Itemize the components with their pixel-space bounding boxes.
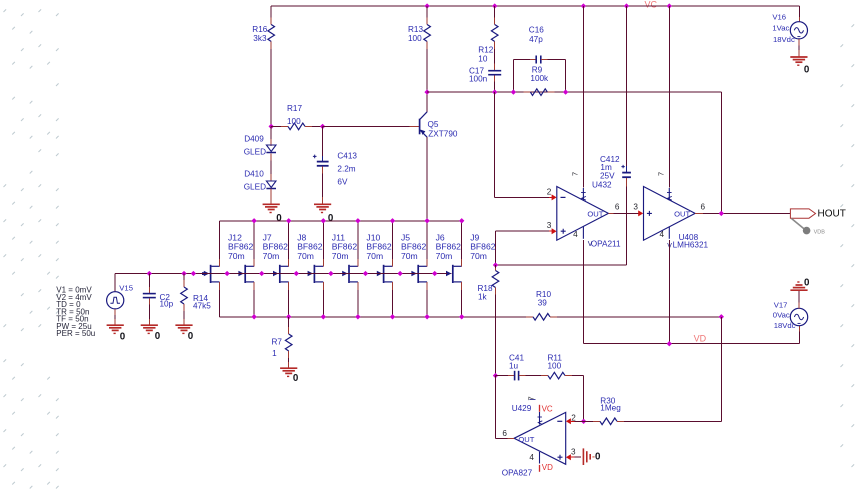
wire U432 V- to VD rail <box>582 227 584 239</box>
svg-text:1k: 1k <box>478 293 488 302</box>
transistor J7 BF862 <box>244 265 246 283</box>
voltage source V16 <box>798 17 800 22</box>
svg-text:U432: U432 <box>592 181 612 190</box>
svg-text:1Vac: 1Vac <box>772 24 789 33</box>
pin 3 input wire U432 <box>495 231 497 265</box>
node drain bus junction <box>459 218 464 223</box>
svg-text:2.2m: 2.2m <box>337 165 355 174</box>
resistor R13 <box>426 6 428 18</box>
transistor J5 BF862 <box>383 265 385 283</box>
node source bus junction <box>251 314 256 319</box>
wire J10 source <box>357 290 359 317</box>
capacitor C17 <box>494 64 496 71</box>
node source bus junction <box>321 314 326 319</box>
ground 0 at V16 <box>790 56 807 58</box>
node VC junction at U408 V+ <box>667 3 672 8</box>
node output junction at HOUT <box>719 211 724 216</box>
wire J8 drain <box>288 221 290 259</box>
pin 6 output wire U432 to U408 <box>608 212 613 214</box>
ground 0 at D410 <box>263 203 280 205</box>
node gate bus junction <box>224 271 229 276</box>
transistor J8 BF862 <box>279 265 281 283</box>
svg-text:OPA211: OPA211 <box>591 240 621 249</box>
svg-text:OUT: OUT <box>674 210 690 219</box>
svg-text:R7: R7 <box>272 338 283 347</box>
wire Q5 emitter to JFET drain bus <box>426 137 428 221</box>
wire JFET drain bus <box>220 220 462 222</box>
svg-text:6V: 6V <box>337 178 348 187</box>
svg-text:70m: 70m <box>297 251 314 261</box>
node source bus junction <box>355 314 360 319</box>
wire C17 to feedback bus <box>494 82 496 93</box>
resistor R17 <box>271 125 281 127</box>
svg-text:D409: D409 <box>244 135 264 144</box>
svg-text:OUT: OUT <box>587 210 603 219</box>
node drain bus junction <box>286 218 291 223</box>
wire source bus right of R10 <box>563 316 722 318</box>
wire gate bus from V15 to J9 <box>115 273 447 275</box>
wire R13 to Q5 <box>426 49 428 112</box>
svg-text:70m: 70m <box>228 251 245 261</box>
svg-text:R16: R16 <box>252 25 267 34</box>
capacitor C412 <box>626 166 628 172</box>
svg-text:OPA827: OPA827 <box>502 468 533 477</box>
svg-text:70m: 70m <box>332 251 349 261</box>
node VC junction at R13 <box>424 3 429 8</box>
svg-text:3: 3 <box>547 221 552 230</box>
svg-text:70m: 70m <box>436 251 453 261</box>
resistor R18 <box>495 265 497 271</box>
transistor Q5 ZXT790 <box>419 119 421 135</box>
capacitor C16 <box>513 59 529 61</box>
node junction U429- / R30 <box>581 419 586 424</box>
ground 0 at V15 <box>107 324 124 326</box>
node gate bus junction <box>397 271 402 276</box>
svg-text:ZXT790: ZXT790 <box>428 130 458 139</box>
wire J11 drain <box>322 221 324 259</box>
wire source bus left of R10 <box>220 316 534 318</box>
svg-text:OUT: OUT <box>518 435 534 444</box>
wire J6 source <box>426 290 428 317</box>
svg-text:18Vdc: 18Vdc <box>773 35 795 44</box>
node source bus to output junction <box>719 314 724 319</box>
svg-text:4: 4 <box>529 453 534 462</box>
node gate junction at R14 <box>181 271 186 276</box>
wire R7 to ground <box>288 358 290 362</box>
svg-text:3k3: 3k3 <box>253 34 267 43</box>
voltage source V17 <box>790 308 807 325</box>
wire R30 to output node <box>624 420 721 422</box>
svg-text:0: 0 <box>595 451 601 462</box>
node drain bus junction <box>390 218 395 223</box>
node gate junction (stub) <box>191 271 196 276</box>
wire C413 to ground <box>322 174 324 198</box>
node source bus junction <box>286 314 291 319</box>
capacitor C2 <box>148 274 150 287</box>
wire feedback bus <box>427 91 721 93</box>
node drain bus junction <box>424 218 429 223</box>
wire C16 box left side <box>512 60 514 93</box>
node gate bus junction <box>328 271 333 276</box>
svg-text:0: 0 <box>188 331 194 342</box>
resistor R16 <box>270 6 272 18</box>
svg-text:1u: 1u <box>509 362 519 371</box>
wire R14 to ground <box>183 311 185 319</box>
pin 2 wire U429 <box>566 418 571 424</box>
pin 2 input wire U432 <box>494 92 496 197</box>
resistor R10 <box>526 316 533 318</box>
node gate bus junction <box>363 271 368 276</box>
svg-text:100: 100 <box>548 362 562 371</box>
ground 0 at R14 <box>175 324 192 326</box>
svg-text:39: 39 <box>538 299 548 308</box>
wire R16 to LED junction <box>270 49 272 126</box>
wire J6 drain <box>426 221 428 259</box>
ground 0 at R7 <box>280 367 297 369</box>
svg-text:0: 0 <box>804 64 810 75</box>
node C17 junction on feedback bus <box>492 89 497 94</box>
diode D409 GLED <box>270 126 272 139</box>
svg-text:VDB: VDB <box>814 230 826 236</box>
wire V17 to ground <box>798 303 800 309</box>
svg-text:C413: C413 <box>337 152 357 161</box>
svg-text:V16: V16 <box>772 13 786 22</box>
ground 0 at U429 pin3 (rotated) <box>582 448 584 465</box>
svg-text:4: 4 <box>660 230 665 239</box>
wire V16 to ground <box>798 46 800 51</box>
svg-text:D410: D410 <box>244 170 264 179</box>
node source bus junction <box>390 314 395 319</box>
op-amp U429 OPA827 <box>514 412 566 464</box>
node VC junction at C412 <box>624 3 629 8</box>
node junction R16/D409/R17 <box>269 124 274 129</box>
wire J5 drain <box>392 221 394 259</box>
wire J8 source <box>288 290 290 317</box>
svg-text:100: 100 <box>287 117 301 126</box>
resistor R30 <box>584 420 593 422</box>
wire R18 to C41 junction <box>495 295 497 376</box>
svg-text:U429: U429 <box>512 404 532 413</box>
svg-text:GLED: GLED <box>244 183 266 192</box>
wire R11 to U429 inverting input <box>572 375 584 377</box>
wire J9 source <box>461 290 463 317</box>
transistor J10 BF862 <box>348 265 350 283</box>
svg-text:100k: 100k <box>530 74 549 83</box>
svg-text:3: 3 <box>571 448 576 457</box>
svg-text:0: 0 <box>293 373 299 384</box>
pin square at J12 gate <box>202 272 205 275</box>
svg-text:6: 6 <box>502 429 507 438</box>
op-amp U408 LMH6321 <box>644 187 696 241</box>
transistor J12 BF862 <box>210 265 212 283</box>
node junction R18/C41/U429 out <box>493 373 498 378</box>
svg-text:VC: VC <box>542 404 553 413</box>
wire R17 to C413 junction <box>312 125 323 127</box>
svg-text:6: 6 <box>701 203 706 212</box>
svg-text:100: 100 <box>408 34 422 43</box>
transistor J6 BF862 <box>417 265 419 283</box>
svg-text:2: 2 <box>547 188 552 197</box>
wire to Q5 base <box>323 125 410 127</box>
wire J7 drain <box>253 221 255 259</box>
capacitor C413 <box>322 126 324 155</box>
svg-text:4: 4 <box>573 230 578 239</box>
svg-text:0: 0 <box>155 331 161 342</box>
svg-text:PER = 50u: PER = 50u <box>56 329 95 338</box>
svg-text:47k5: 47k5 <box>193 302 211 311</box>
capacitor C41 <box>496 375 508 377</box>
svg-text:70m: 70m <box>401 251 418 261</box>
wire J7 source <box>253 290 255 317</box>
wire C2 to ground <box>148 305 150 320</box>
svg-text:VD: VD <box>542 463 553 472</box>
wire VD rail to V17 <box>798 332 800 344</box>
svg-text:VC: VC <box>645 0 658 10</box>
node drain bus junction <box>355 218 360 223</box>
wire U408 V- to VD rail <box>668 227 670 239</box>
svg-text:70m: 70m <box>263 251 280 261</box>
svg-text:V17: V17 <box>774 300 788 309</box>
wire J11 source <box>322 290 324 317</box>
power flag VD at U429 <box>539 452 541 464</box>
node feedback tap on R13-Q5 wire <box>424 89 429 94</box>
port HOUT <box>790 209 815 218</box>
svg-text:V15: V15 <box>119 284 133 293</box>
svg-text:7: 7 <box>571 172 580 176</box>
wire J5 source <box>392 290 394 317</box>
svg-text:1Meg: 1Meg <box>600 403 621 412</box>
transistor J9 BF862 <box>452 265 454 283</box>
node junction R18/C412/U432+ <box>493 262 498 267</box>
svg-text:1: 1 <box>272 349 277 358</box>
op-amp U432 OPA211 <box>557 187 609 241</box>
svg-text:47p: 47p <box>529 35 543 44</box>
resistor R14 <box>183 274 185 281</box>
wire J10 drain <box>357 221 359 259</box>
wire C16 box right side <box>565 60 567 93</box>
node VC junction at U432 V+ <box>581 3 586 8</box>
svg-text:0: 0 <box>276 213 282 224</box>
voltage source V15 <box>114 274 116 292</box>
wire J12 drain <box>219 221 221 259</box>
node gate junction at C2 <box>147 271 152 276</box>
resistor R12 <box>494 6 496 18</box>
node gate bus junction <box>294 271 299 276</box>
svg-text:GLED: GLED <box>244 148 266 157</box>
wire C412 to U432 noninverting net <box>626 187 628 266</box>
svg-text:R17: R17 <box>287 104 302 113</box>
node gate bus junction <box>432 271 437 276</box>
svg-text:10p: 10p <box>160 300 174 309</box>
pin 6 output wire U408 to HOUT <box>695 212 703 214</box>
node VC junction at R12 <box>492 3 497 8</box>
resistor R11 <box>525 375 541 377</box>
svg-text:18Vdc: 18Vdc <box>774 321 796 330</box>
wire V15 to ground <box>114 309 116 315</box>
node R9 box left junction <box>511 89 516 94</box>
svg-text:6: 6 <box>615 203 620 212</box>
svg-text:VD: VD <box>694 334 707 344</box>
svg-text:R13: R13 <box>408 25 423 34</box>
svg-text:3: 3 <box>633 203 638 212</box>
node source bus junction <box>424 314 429 319</box>
power flag VC at U429 <box>539 405 541 412</box>
wire J12 source corner <box>219 220 221 222</box>
node source bus junction <box>459 314 464 319</box>
wire J9 drain <box>461 221 463 259</box>
ground 0 at C2 <box>141 324 158 326</box>
node junction R17/C413/Q5 base <box>320 124 325 129</box>
ground 0 at V17 (flipped) <box>790 289 807 291</box>
node R9 box right junction <box>563 89 568 94</box>
wire D410 to ground <box>270 196 272 205</box>
svg-text:0: 0 <box>120 332 126 343</box>
wire VC top rail <box>271 5 799 7</box>
svg-text:0: 0 <box>804 278 810 289</box>
node gate bus junction <box>259 271 264 276</box>
wire VC to C412 <box>626 6 628 166</box>
svg-text:LMH6321: LMH6321 <box>673 241 709 250</box>
diode D410 GLED <box>270 161 272 175</box>
svg-text:25V: 25V <box>600 172 615 181</box>
svg-text:100n: 100n <box>469 75 488 84</box>
node junction U408 V- on VD rail <box>667 341 672 346</box>
ground 0 at C413 <box>314 203 331 205</box>
svg-text:7: 7 <box>657 172 666 176</box>
svg-text:2: 2 <box>571 413 576 422</box>
svg-text:C16: C16 <box>529 26 544 35</box>
resistor R9 <box>523 91 530 93</box>
pin 3 wire U429 <box>566 454 571 460</box>
resistor R7 <box>288 317 290 327</box>
wire feedback bus drop to output <box>720 92 722 213</box>
wire V16 drop from VC rail <box>798 6 800 17</box>
transistor J11 BF862 <box>313 265 315 283</box>
svg-text:V: V <box>588 241 593 248</box>
svg-text:10: 10 <box>478 55 488 64</box>
svg-text:HOUT: HOUT <box>818 209 846 220</box>
svg-text:0Vac: 0Vac <box>773 310 790 319</box>
wire VC to U432 V+ pin <box>582 6 584 188</box>
node drain bus junction <box>321 218 326 223</box>
svg-text:70m: 70m <box>366 251 383 261</box>
svg-text:R12: R12 <box>478 46 493 55</box>
wire J12 source <box>219 290 221 317</box>
wire R12 to C17 <box>494 49 496 64</box>
probe VDB marker <box>792 219 804 229</box>
svg-text:0: 0 <box>328 213 334 224</box>
node drain bus junction <box>251 218 256 223</box>
pin 6 output wire U429 <box>508 437 515 439</box>
wire VC to U408 V+ pin <box>668 6 670 188</box>
svg-text:Q5: Q5 <box>428 120 439 129</box>
svg-text:70m: 70m <box>470 251 487 261</box>
